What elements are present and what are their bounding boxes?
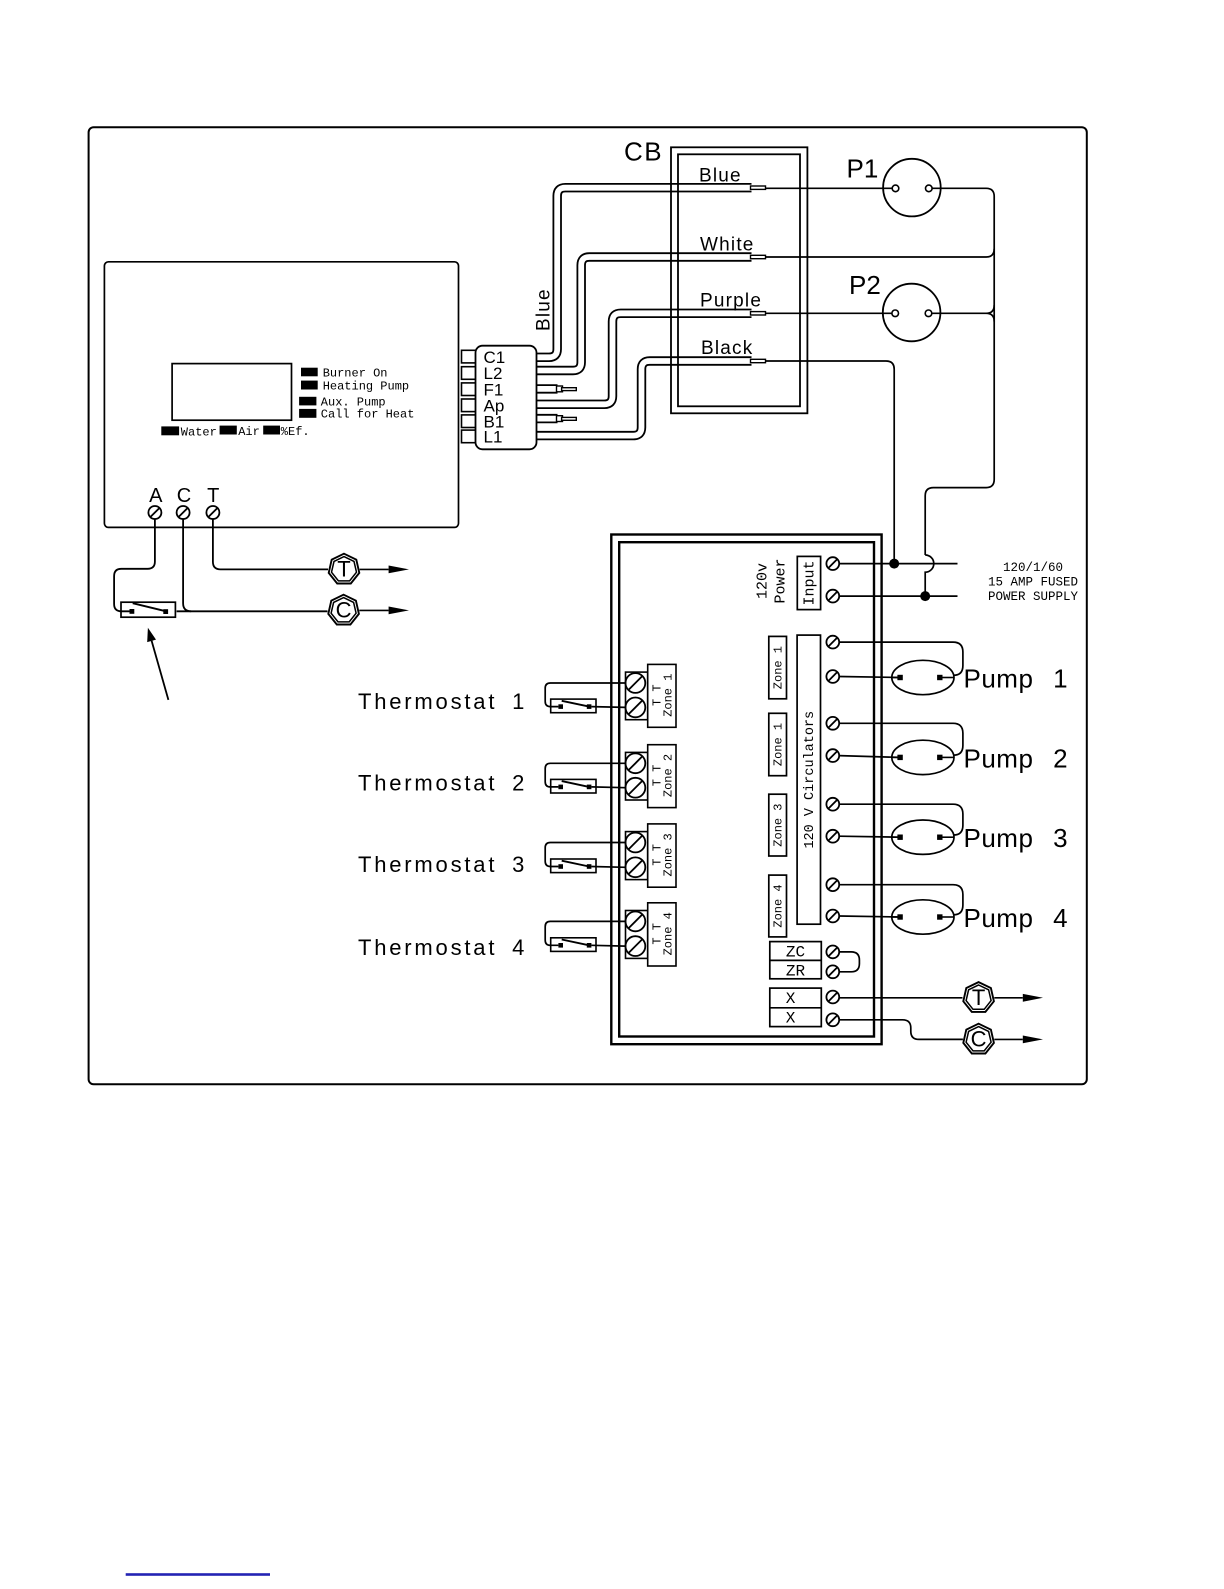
screw terminal C	[177, 506, 190, 519]
white wire stripped tip	[751, 255, 766, 258]
footer rule	[126, 1573, 270, 1576]
wire thermostat 4 to T terminal	[545, 921, 625, 945]
node T (zone board) symbol	[963, 982, 994, 1012]
zone 2 T-T terminal block	[626, 745, 677, 808]
wire P1 right terminal to feed bus down to 120v input	[925, 188, 994, 555]
wire C down to C-node	[183, 519, 191, 611]
thermostat 1 switch	[551, 699, 596, 713]
arrow from zone node T	[994, 994, 1043, 1002]
svg-text:Input: Input	[802, 560, 819, 605]
wire zone neutral to pump 4	[839, 916, 900, 917]
svg-text:L1: L1	[484, 428, 503, 447]
svg-text:T: T	[972, 985, 985, 1010]
svg-text:T: T	[337, 557, 350, 582]
wire thermostat 1 to T terminal	[545, 683, 625, 707]
wire input hot line	[839, 563, 957, 565]
svg-text:Zone 3: Zone 3	[772, 803, 786, 846]
zone 3 T screw lower	[626, 857, 646, 877]
thermostat 3 switch	[551, 859, 596, 873]
svg-text:Zone 2: Zone 2	[662, 754, 676, 797]
wire thermostat 3 to T terminal	[545, 843, 625, 867]
wire thermostat 2 switch to T terminal lower	[591, 786, 625, 789]
zone 4 T screw upper	[626, 912, 646, 932]
unused B1 plug wire	[537, 414, 558, 423]
wire thermostat 2 to T terminal	[545, 763, 625, 787]
thermostat 2 switch	[551, 779, 596, 793]
wire thermostat 3 switch to T terminal lower	[591, 866, 625, 869]
LED legend indicators	[299, 366, 414, 421]
svg-text:Thermostat 4: Thermostat 4	[358, 935, 527, 960]
input box	[797, 556, 820, 609]
wire white tip to feed bus	[766, 249, 995, 257]
svg-text:Burner On: Burner On	[323, 366, 388, 380]
purple wire stripped tip	[751, 312, 766, 315]
screw terminal A	[148, 506, 161, 519]
svg-text:Call for Heat: Call for Heat	[321, 408, 415, 422]
zone 3 T screw upper	[626, 833, 646, 853]
label Thermostat 3	[358, 852, 527, 877]
label Blue (vertical, on blue pair)	[534, 288, 555, 331]
label Blue wire row	[699, 166, 742, 187]
svg-text:Thermostat 1: Thermostat 1	[358, 689, 527, 714]
node T (thermostat connection) symbol	[329, 554, 360, 584]
screw X lower	[826, 1013, 839, 1026]
wire L2 white pair	[537, 257, 752, 371]
wire black tip down to 120v input line	[766, 361, 895, 564]
svg-text:Zone 1: Zone 1	[662, 674, 676, 717]
wire Ap purple pair	[537, 313, 752, 404]
label Thermostat 2	[358, 771, 527, 796]
svg-text:Zone 1: Zone 1	[772, 723, 786, 766]
svg-text:Water: Water	[181, 425, 217, 439]
wire thermostat 1 switch to T terminal lower	[591, 706, 625, 709]
svg-text:ZC: ZC	[786, 943, 805, 961]
connector J1 pins	[462, 350, 477, 442]
limit switch SW1 contacts and blade	[130, 603, 169, 614]
circuit breaker box CB outline	[671, 147, 807, 413]
svg-text:Zone 3: Zone 3	[662, 833, 676, 876]
svg-text:C: C	[971, 1027, 987, 1052]
wire zone hot to pump 3	[839, 804, 963, 835]
pump 3 motor	[892, 820, 954, 854]
arrow from zone node C	[994, 1036, 1043, 1044]
border frame (drawing outline)	[89, 127, 1087, 1084]
label 120/1/60 15 AMP FUSED POWER SUPPLY	[988, 561, 1079, 604]
zone 1 T screw lower	[626, 698, 646, 718]
connector J1 body	[476, 346, 537, 450]
svg-text:C: C	[177, 485, 191, 507]
label Pump 3	[964, 823, 1069, 853]
svg-text:Black: Black	[701, 338, 753, 359]
label Pump 4	[964, 903, 1069, 933]
terminal labels A C T	[149, 485, 219, 507]
120 V Circulators box	[797, 635, 820, 924]
zone 3 T-T terminal block	[626, 824, 677, 887]
unused B1 plug tip	[557, 416, 577, 422]
junction dot on 120v neutral input	[920, 591, 930, 601]
ZC ZR terminal box	[770, 942, 822, 981]
pump 2 motor	[892, 740, 954, 774]
junction dot on 120v hot input	[889, 559, 899, 569]
wire X to node T	[839, 997, 962, 999]
display screen of control box	[172, 364, 291, 421]
pump 4 motor	[892, 900, 954, 934]
svg-text:15 AMP FUSED: 15 AMP FUSED	[988, 576, 1078, 590]
svg-text:A: A	[149, 485, 163, 507]
black wire stripped tip	[751, 359, 766, 362]
unused F1 plug wire	[537, 384, 558, 393]
svg-text:Air: Air	[238, 425, 260, 439]
ZC-ZR jumper wire	[839, 952, 859, 972]
svg-text:120v: 120v	[755, 563, 772, 599]
svg-text:Pump 4: Pump 4	[964, 903, 1069, 933]
screw X upper	[826, 991, 839, 1004]
zone 2 T screw upper	[626, 753, 646, 773]
wire zone hot to pump 1	[839, 642, 963, 675]
wire input neutral line	[839, 595, 957, 597]
zone 1 T-T terminal block	[626, 664, 677, 727]
wire thermostat 4 switch to T terminal lower	[591, 944, 625, 947]
screw ZR	[826, 965, 839, 978]
label Purple wire row	[700, 291, 762, 312]
unused F1 plug tip	[557, 386, 577, 392]
status row (Water / Air / %Ef.)	[161, 425, 309, 440]
zone output screw terminals	[826, 636, 839, 923]
svg-text:Power: Power	[773, 558, 790, 603]
zone 4 T screw lower	[626, 936, 646, 956]
svg-text:120/1/60: 120/1/60	[1003, 561, 1063, 575]
screw terminal T	[206, 506, 219, 519]
svg-text:White: White	[700, 235, 755, 256]
zone control board outline	[611, 535, 881, 1045]
screw 120v input hot	[826, 557, 839, 570]
control box U1 (boiler control) outline	[104, 262, 458, 528]
label White wire row	[700, 235, 755, 256]
label Pump 2	[964, 743, 1069, 773]
limit switch SW1 box	[121, 602, 175, 617]
wire L1 black pair	[537, 361, 752, 436]
svg-text:Zone 4: Zone 4	[772, 884, 786, 927]
wire switch/C to connector C	[177, 610, 328, 612]
label CB	[624, 137, 663, 167]
svg-text:Pump 3: Pump 3	[964, 823, 1069, 853]
label Pump 1	[964, 663, 1069, 693]
svg-text:Zone 1: Zone 1	[772, 646, 786, 689]
arrow from node C	[359, 607, 409, 615]
svg-text:Thermostat 2: Thermostat 2	[358, 771, 527, 796]
wire X to node C	[839, 1020, 963, 1040]
zone 2 T screw lower	[626, 778, 646, 798]
screw ZC	[826, 946, 839, 959]
svg-text:Zone 4: Zone 4	[662, 912, 676, 955]
thermostat 4 switch	[551, 938, 596, 952]
label P2	[849, 270, 881, 300]
label Thermostat 4	[358, 935, 527, 960]
zone output label boxes (Zone 1 / Zone 1 / Zone 3 / Zone 4)	[769, 636, 787, 936]
arrow from node T	[360, 566, 409, 574]
zone 4 T-T terminal block	[626, 903, 677, 966]
label P1	[847, 153, 879, 183]
wire P2 right terminal joins feed bus	[932, 305, 994, 321]
svg-text:X: X	[786, 990, 796, 1008]
label 120v Power (vertical)	[755, 558, 790, 603]
connector J1 pin labels C1 L2 F1 Ap B1 L1	[484, 348, 506, 447]
blue wire stripped tip	[751, 186, 766, 189]
svg-text:Purple: Purple	[700, 291, 762, 312]
pointer arrow to limit switch	[147, 628, 168, 700]
label Thermostat 1	[358, 689, 527, 714]
svg-text:CB: CB	[624, 137, 663, 167]
pump 1 motor	[892, 660, 954, 694]
wire blue tip to pump P1 left terminal	[766, 187, 893, 189]
svg-text:C: C	[336, 598, 352, 623]
wire T to connector T	[213, 519, 328, 569]
svg-text:Heating Pump: Heating Pump	[323, 380, 409, 394]
wire C1 blue pair	[537, 188, 752, 358]
svg-text:Pump 2: Pump 2	[964, 743, 1069, 773]
pump P2 circle	[883, 284, 941, 342]
node C (zone board) symbol	[963, 1024, 994, 1054]
node C (common connection) symbol	[328, 595, 359, 625]
svg-text:Blue: Blue	[699, 166, 742, 187]
screw 120v input neutral	[826, 590, 839, 603]
wire zone hot to pump 2	[839, 723, 963, 755]
wire hop over input line and to junction	[925, 555, 934, 596]
svg-text:Thermostat 3: Thermostat 3	[358, 852, 527, 877]
svg-text:X: X	[786, 1010, 796, 1028]
svg-text:P1: P1	[847, 153, 879, 183]
svg-text:%Ef.: %Ef.	[281, 425, 310, 439]
wire zone neutral to pump 3	[839, 836, 900, 837]
svg-text:P2: P2	[849, 270, 881, 300]
wire zone neutral to pump 2	[839, 756, 900, 758]
X X terminal box	[770, 988, 822, 1027]
pump P1 circle	[883, 159, 941, 217]
label Black wire row	[701, 338, 753, 359]
svg-text:Pump 1: Pump 1	[964, 663, 1069, 693]
wire zone hot to pump 4	[839, 885, 963, 915]
wire purple tip to pump P2 left terminal	[766, 312, 893, 314]
svg-text:120 V Circulators: 120 V Circulators	[803, 711, 818, 849]
wire zone neutral to pump 1	[839, 677, 900, 678]
svg-text:Blue: Blue	[534, 288, 555, 331]
zone 1 T screw upper	[626, 673, 646, 693]
svg-text:T: T	[207, 485, 219, 507]
svg-text:ZR: ZR	[786, 962, 806, 980]
svg-text:POWER SUPPLY: POWER SUPPLY	[988, 590, 1079, 604]
wire A to limit switch	[114, 519, 155, 611]
